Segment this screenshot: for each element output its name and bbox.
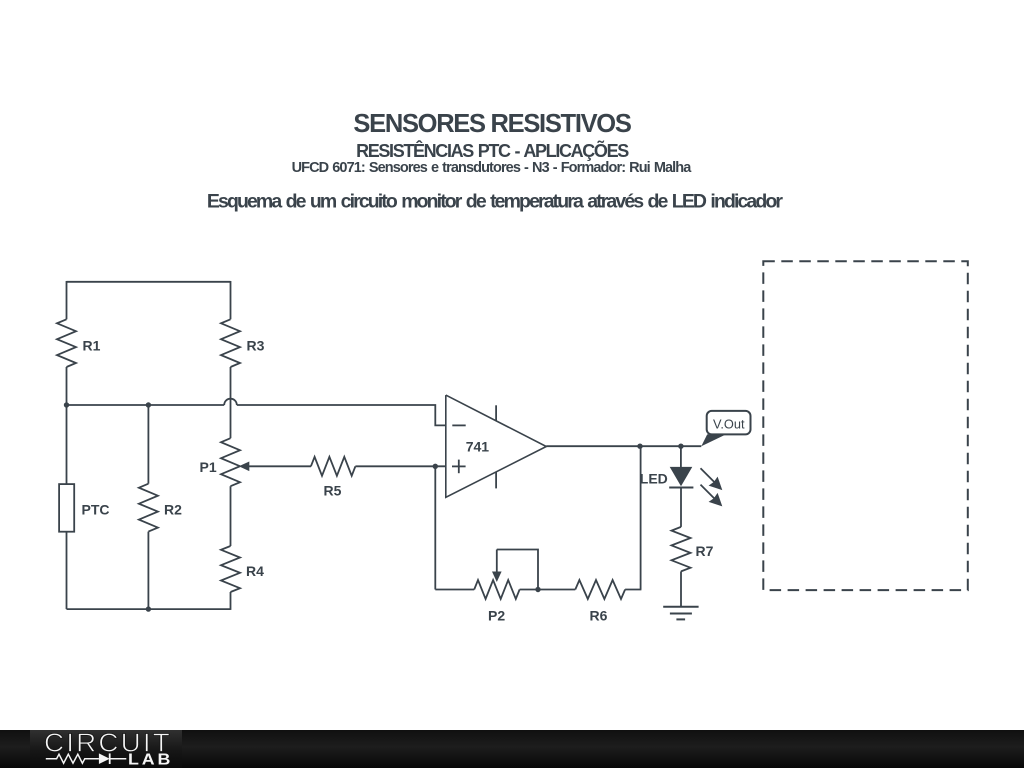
- svg-text:R3: R3: [247, 338, 265, 354]
- wire bottom rail: [67, 608, 231, 610]
- junction P2 right terminal: [535, 587, 540, 592]
- op-amp minus sign: [452, 424, 465, 426]
- wire R4 bottom lead: [230, 592, 232, 610]
- node V.Out flag: [701, 434, 726, 446]
- svg-text:R2: R2: [164, 502, 182, 518]
- wire R6 to feedback vertical: [625, 589, 641, 591]
- junction feedback: [637, 444, 642, 449]
- wire R1 top lead: [66, 281, 68, 319]
- wire node row right segment to op-amp: [237, 405, 446, 425]
- dashed annotation box: [763, 261, 968, 590]
- wire R1 bottom lead: [66, 367, 68, 405]
- svg-text:R1: R1: [83, 338, 101, 354]
- LED cathode bar: [669, 487, 693, 489]
- wire LED to R7: [680, 488, 682, 527]
- wire R3 top lead: [230, 281, 232, 319]
- wire PTC to bottom rail: [66, 532, 68, 609]
- wire R2 top lead: [147, 405, 149, 484]
- op-amp V+ power stub: [495, 405, 497, 421]
- op-amp V- power stub: [495, 472, 497, 488]
- svg-text:R4: R4: [246, 563, 264, 579]
- LED light arrow 1: [701, 468, 715, 482]
- P2 wiper arrow: [496, 550, 498, 574]
- resistor R6: [575, 580, 625, 599]
- svg-text:V.Out: V.Out: [713, 417, 745, 432]
- wire P2 wiper bypass: [497, 550, 538, 590]
- svg-text:PTC: PTC: [82, 502, 110, 518]
- wire P1 to R4: [230, 486, 232, 546]
- wire bottom to P2: [435, 589, 474, 591]
- junction R2 bottom: [146, 606, 151, 611]
- svg-text:R6: R6: [590, 608, 608, 624]
- junction plus input: [433, 464, 438, 469]
- wire node row left segment: [67, 404, 225, 406]
- wire R3 to P1 (passes under hop): [230, 367, 232, 438]
- wire R7 to ground: [680, 571, 682, 606]
- svg-text:LED: LED: [640, 471, 668, 487]
- svg-text:P2: P2: [488, 608, 505, 624]
- wire R5 to op-amp plus input: [355, 465, 445, 467]
- svg-text:R7: R7: [696, 543, 714, 559]
- LED D1: [670, 467, 693, 486]
- resistor R7: [672, 527, 691, 572]
- resistor R3: [221, 319, 240, 367]
- svg-text:R5: R5: [324, 483, 342, 499]
- op-amp U1 741: [446, 395, 547, 497]
- junction LED branch: [678, 444, 683, 449]
- footer bar: [0, 730, 1024, 768]
- wire top rail: [67, 281, 231, 283]
- wire op-amp output: [546, 445, 701, 447]
- wire hop over R3 branch: [224, 399, 237, 405]
- svg-text:Esquema de um circuito monitor: Esquema de um circuito monitor de temper…: [207, 191, 783, 213]
- resistor R5: [311, 457, 356, 476]
- ground: [663, 606, 698, 608]
- resistor R2: [139, 484, 158, 532]
- LED light arrow 2: [701, 485, 715, 499]
- junction node R2 top: [146, 402, 151, 407]
- svg-text:UFCD 6071: Sensores e transdut: UFCD 6071: Sensores e transdutores - N3 …: [292, 160, 693, 176]
- wire feedback vertical down: [640, 446, 642, 589]
- svg-text:RESISTÊNCIAS PTC - APLICAÇÕES: RESISTÊNCIAS PTC - APLICAÇÕES: [356, 140, 629, 161]
- wire R2 bottom lead: [147, 532, 149, 610]
- op-amp plus sign: [452, 465, 466, 467]
- resistor R1: [57, 319, 76, 367]
- wire left column to PTC: [66, 405, 68, 484]
- svg-text:P1: P1: [200, 459, 217, 475]
- potentiometer P1: [221, 438, 240, 486]
- wire P2 to R6: [520, 589, 576, 591]
- svg-text:LAB: LAB: [128, 751, 173, 768]
- svg-text:741: 741: [466, 439, 490, 455]
- junction node left: [64, 402, 69, 407]
- logo plate: [30, 730, 182, 768]
- P1 wiper arrow: [248, 465, 311, 467]
- resistor R4: [221, 546, 240, 592]
- potentiometer P2: [474, 580, 519, 599]
- logo resistor-diode glyph: [46, 754, 99, 763]
- wire LED anode lead: [680, 446, 682, 467]
- thermistor PTC: [59, 484, 74, 532]
- wire plus-input vertical down: [434, 466, 436, 589]
- svg-text:SENSORES RESISTIVOS: SENSORES RESISTIVOS: [353, 110, 631, 138]
